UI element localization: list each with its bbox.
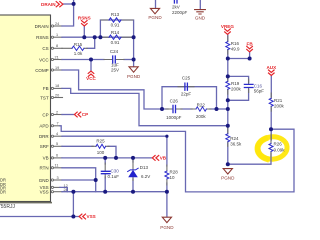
junction DRR corner: [165, 135, 168, 138]
wire D13 branch: [132, 158, 134, 162]
svg-text:COMP: COMP: [35, 68, 49, 73]
svg-text:20: 20: [55, 93, 59, 97]
svg-text:0.91: 0.91: [111, 40, 120, 45]
resistor R19 200k vertical: [226, 81, 230, 89]
resistor R16 49.9 vertical: [226, 42, 230, 50]
svg-text:2: 2: [56, 110, 58, 114]
wire R24 bottom to PGND: [227, 143, 229, 164]
wire APD loop path: [60, 126, 294, 192]
ground symbol GND (top area, earth): [195, 10, 206, 14]
svg-text:VREG: VREG: [221, 24, 234, 29]
junction VCC flag: [89, 58, 93, 62]
svg-text:RTN: RTN: [40, 166, 49, 171]
IC pin numbers: [55, 22, 68, 192]
node R19/C16 top: [226, 74, 230, 78]
svg-text:0.91: 0.91: [111, 23, 120, 28]
svg-text:0.1uF: 0.1uF: [108, 174, 120, 179]
svg-text:5: 5: [56, 142, 58, 146]
lead R16: [227, 36, 229, 54]
capacitor C30 plates: [101, 171, 110, 173]
resistor R13 0.91 horizontal: [109, 18, 121, 22]
svg-text:200k: 200k: [196, 114, 207, 119]
svg-text:49.9: 49.9: [231, 46, 240, 51]
ground symbol PGND (below R28): [162, 217, 171, 222]
highlight marker ring around R26: [257, 136, 288, 161]
wire VB line: [62, 157, 151, 159]
svg-text:1000pF: 1000pF: [166, 115, 182, 120]
wire COMP path: [62, 70, 162, 109]
svg-text:22pF: 22pF: [181, 92, 192, 97]
resistor R26 9.09k vertical: [269, 144, 273, 152]
svg-text:PGND: PGND: [221, 176, 235, 181]
svg-text:CP: CP: [82, 112, 88, 117]
capacitor C25 plates: [185, 83, 188, 90]
junction R13 right: [132, 35, 136, 39]
wire VCC line: [62, 59, 104, 61]
svg-text:R21: R21: [274, 98, 283, 103]
svg-text:R13: R13: [111, 12, 120, 17]
svg-text:21: 21: [55, 55, 59, 59]
node R21/R26/loop: [269, 127, 273, 131]
lead R13: [101, 19, 133, 21]
svg-text:VSS: VSS: [87, 214, 96, 219]
node R16 bottom: [226, 57, 230, 61]
junction C24/PGND: [132, 58, 136, 62]
wire C30 branch: [104, 158, 106, 164]
net flag VREG: [225, 29, 231, 34]
wire DRAIN label stub: [63, 3, 73, 5]
wire FB flag tap: [228, 52, 250, 58]
svg-text:R25: R25: [96, 139, 105, 144]
junction VSS pins: [71, 190, 75, 194]
svg-text:1.0k: 1.0k: [74, 51, 83, 56]
svg-text:PGND: PGND: [148, 15, 162, 20]
lead C30: [104, 163, 106, 178]
svg-text:RSNS: RSNS: [36, 35, 49, 40]
svg-text:AUX: AUX: [266, 65, 277, 70]
resistor R25 100 horizontal: [96, 144, 106, 148]
wire RSNS flag drop: [83, 26, 85, 37]
svg-text:24: 24: [55, 22, 59, 26]
junction rail/C30: [103, 190, 107, 194]
ground symbol PGND (below C24): [129, 67, 138, 72]
svg-text:VSS: VSS: [40, 190, 49, 195]
svg-text:VB: VB: [160, 156, 167, 161]
junction RTN/GND: [94, 178, 98, 182]
svg-text:25V: 25V: [111, 67, 119, 72]
wire R21 bottom to node: [270, 108, 272, 140]
wire VCC flag drop: [90, 60, 92, 72]
net flag RSNS: [82, 21, 88, 26]
svg-text:VCC: VCC: [86, 76, 96, 81]
wire PGND drop at C24: [133, 37, 135, 66]
svg-text:R14: R14: [111, 30, 120, 35]
resistor R24 36.5k vertical: [226, 134, 230, 142]
svg-text:6: 6: [56, 154, 58, 158]
svg-text:10: 10: [170, 175, 176, 180]
wire CP stub: [62, 114, 73, 116]
svg-text:7: 7: [57, 122, 59, 126]
junction VB/D13: [131, 156, 135, 160]
capacitor Y-cap plates top: [174, 0, 177, 3]
capacitor C16 plates: [244, 84, 253, 87]
node COMP network left: [160, 107, 164, 111]
net flag CP: [74, 112, 80, 117]
node FB bus: [226, 124, 230, 128]
grey pin stubs: [54, 26, 63, 192]
net flag VSS: [79, 214, 85, 219]
svg-text:CP: CP: [42, 112, 48, 117]
lead R19: [227, 76, 229, 94]
wire C25 loop: [162, 87, 217, 109]
lead R24: [227, 128, 229, 146]
svg-text:VB: VB: [43, 156, 49, 161]
svg-text:DRAIN: DRAIN: [41, 2, 56, 7]
lead D13: [132, 160, 134, 180]
svg-text:DRAIN: DRAIN: [35, 24, 49, 29]
net flag DRAIN: [56, 2, 63, 7]
svg-text:100: 100: [97, 150, 105, 155]
svg-text:DR: DR: [0, 189, 6, 194]
wire C16 loop: [228, 76, 249, 100]
pin end circles: [51, 25, 53, 193]
wire AUX column: [270, 76, 272, 97]
svg-text:PGND: PGND: [127, 74, 141, 79]
svg-text:19: 19: [55, 66, 59, 70]
svg-text:VCC: VCC: [39, 57, 49, 62]
svg-text:36.5k: 36.5k: [230, 142, 242, 147]
svg-text:11: 11: [55, 164, 59, 168]
svg-text:R22: R22: [197, 103, 206, 108]
lead R21: [270, 93, 272, 111]
lead R25: [92, 145, 109, 147]
svg-text:R28: R28: [170, 170, 179, 175]
svg-text:1: 1: [56, 33, 58, 37]
node network/main rail: [226, 107, 230, 111]
svg-text:C30: C30: [111, 168, 120, 173]
resistor R14 0.91 horizontal: [109, 35, 121, 39]
capacitor C26 plates: [173, 105, 176, 112]
svg-text:R19: R19: [231, 81, 240, 86]
wire DRAIN pin to top: [62, 0, 74, 26]
wire R19 bottom to nodes: [227, 90, 229, 133]
svg-text:9.09k: 9.09k: [274, 147, 286, 152]
svg-text:200k: 200k: [274, 103, 285, 108]
IC left-edge partial pin names: [0, 178, 6, 195]
svg-text:6.2V: 6.2V: [141, 174, 150, 179]
svg-text:FB: FB: [247, 41, 254, 46]
svg-text:RSNS: RSNS: [78, 16, 91, 21]
junction VB/C30: [103, 156, 107, 160]
zener diode D13 6.2V: [128, 168, 139, 177]
lead C26: [166, 108, 182, 110]
svg-text:CS: CS: [42, 46, 48, 51]
resistor R28 10 vertical: [165, 171, 169, 179]
wire VSS drop and bottom run: [0, 192, 79, 217]
svg-text:C26: C26: [170, 98, 179, 103]
svg-text:4: 4: [56, 132, 58, 136]
svg-text:C24: C24: [110, 49, 119, 54]
junction FB flag: [248, 57, 252, 61]
wire VSS rail: [62, 191, 167, 193]
net flag FB: [247, 46, 253, 51]
node R24/PGND: [226, 162, 230, 166]
lead R22: [191, 108, 211, 110]
junction VSS flag: [71, 215, 75, 219]
wire FB path: [62, 88, 228, 125]
svg-text:APD: APD: [39, 124, 49, 129]
junction VB/R25: [114, 156, 118, 160]
junction RSNS flag: [82, 35, 86, 39]
svg-text:GND: GND: [39, 178, 50, 183]
wire VSS pin12 step: [60, 187, 67, 191]
node R19/C16 bottom: [226, 98, 230, 102]
grey component leads: [62, 20, 271, 185]
junction DRAIN net: [72, 2, 76, 6]
lead C25: [178, 86, 194, 88]
svg-text:R24: R24: [230, 136, 239, 141]
lead R28: [166, 165, 168, 185]
wire DRR to R28: [62, 136, 167, 166]
svg-text:FB: FB: [43, 86, 49, 91]
wire RSNS line: [62, 36, 134, 38]
wire VREG column: [227, 35, 229, 41]
component glyphs (blue): [72, 18, 273, 179]
svg-text:2200pF: 2200pF: [172, 10, 188, 15]
svg-text:R26: R26: [274, 142, 283, 147]
wire GND pin path: [62, 180, 96, 192]
svg-text:56pF: 56pF: [254, 88, 265, 93]
net flag VCC: [88, 71, 94, 76]
lead R14: [101, 36, 133, 38]
svg-text:200k: 200k: [231, 87, 242, 92]
svg-text:C25: C25: [182, 75, 191, 80]
wire R24 node to R26 bottom: [228, 153, 271, 164]
junction rail/R28: [165, 190, 169, 194]
wire RTN path: [62, 168, 96, 180]
svg-text:D13: D13: [140, 165, 149, 170]
wire SRF through R25 corner: [62, 145, 93, 147]
net flag VB: [152, 156, 158, 161]
capacitor C24 plates: [113, 56, 116, 63]
wire PGND top drop: [155, 0, 157, 8]
svg-text:755RJJ: 755RJJ: [0, 204, 15, 210]
resistor R21 200k vertical: [269, 98, 273, 106]
ground symbol PGND (top area): [150, 8, 159, 13]
svg-text:GND: GND: [195, 16, 206, 21]
svg-text:2kV: 2kV: [172, 4, 180, 9]
svg-text:PGND: PGND: [160, 225, 174, 230]
lead C16: [248, 79, 250, 93]
svg-text:SRF: SRF: [40, 144, 49, 149]
resistor R22 200k horizontal: [196, 107, 206, 111]
ground symbol PGND (below R24): [223, 169, 232, 174]
junction R13 left: [98, 35, 102, 39]
IC U1 body: [0, 15, 52, 203]
svg-text:8: 8: [56, 44, 58, 48]
lead R15: [62, 47, 87, 49]
junction RSNS/CS: [93, 35, 97, 39]
wire FB net segment C26-R22: [162, 108, 228, 110]
lead R26: [270, 134, 272, 157]
resistor R15 1.0k horizontal: [72, 46, 84, 50]
svg-text:DRR: DRR: [39, 134, 49, 139]
component labels: [74, 12, 207, 155]
wire CS riser to RSNS: [87, 37, 95, 48]
net flag AUX: [269, 70, 275, 75]
svg-text:18: 18: [55, 84, 59, 88]
wire GND top drop: [199, 0, 201, 9]
IC pin names: [35, 24, 50, 195]
svg-text:TST: TST: [40, 95, 49, 100]
node R22/C25 right: [215, 107, 219, 111]
lead C24: [104, 59, 124, 61]
wire R13 parallel loop: [100, 20, 133, 37]
svg-text:3: 3: [57, 176, 59, 180]
wire R28 bottom to PGND: [166, 183, 168, 217]
svg-text:R15: R15: [74, 42, 83, 47]
TST stub pin 20: [54, 97, 63, 99]
junction rail/D13: [131, 190, 135, 194]
